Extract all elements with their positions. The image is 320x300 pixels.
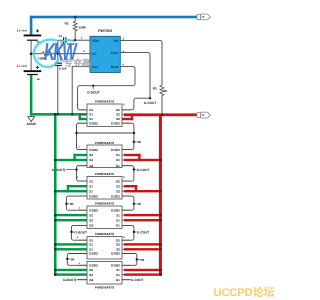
svg-text:S2: S2 (89, 158, 93, 162)
node Q1-Q2 drain right junction (133, 132, 135, 134)
ground AGND symbol (27, 116, 37, 126)
svg-text:D1\D2: D1\D2 (111, 252, 120, 256)
resistor R1 100R (38, 52, 52, 61)
svg-text:D1\D2: D1\D2 (111, 208, 120, 212)
net label 0R Q3-Q4 left (65, 202, 74, 206)
svg-text:S1: S1 (116, 268, 120, 272)
svg-text:S2: S2 (89, 218, 93, 222)
wire Q2-Q3 gate link right G-COUT (122, 166, 134, 181)
svg-text:S2: S2 (116, 184, 120, 188)
wire Q3-Q4 drain link right (122, 196, 134, 210)
node G-COUT (144, 97, 157, 105)
net label 0R Q3-Q4 right (133, 202, 142, 206)
svg-text:PW8205A8TS: PW8205A8TS (95, 141, 114, 145)
svg-text:S1: S1 (89, 243, 93, 247)
wire VDD to pin 1 (75, 37, 90, 40)
node battery midpoint (30, 52, 33, 55)
wire Q2-Q3 gate link left G-DOUT (77, 166, 88, 181)
nodes on green B- bus (54, 113, 57, 276)
svg-text:S1: S1 (116, 218, 120, 222)
svg-text:D1\D2: D1\D2 (89, 264, 98, 268)
svg-text:G-DOUT}: G-DOUT} (63, 278, 78, 282)
watermark KKW text (44, 39, 78, 66)
pin 4 label VC (83, 50, 85, 53)
wire Q1-Q2 drain link right (122, 123, 134, 149)
wire Q1-Q2 drain link left (77, 123, 88, 149)
resistor R2 100R (65, 17, 87, 40)
capacitor C2 0.1uF (58, 34, 75, 46)
svg-text:G-COUT: G-COUT (137, 168, 150, 172)
node Q1-Q2 drain left junction (75, 132, 77, 134)
wire VC tap from battery midpoint (31, 53, 90, 55)
wire AGND horizontal rail (thick green) (30, 113, 87, 116)
resistor R3 1K (153, 85, 168, 113)
svg-text:Dout: Dout (111, 65, 119, 69)
wire drain crossbar (77, 132, 134, 134)
svg-text:S2: S2 (116, 243, 120, 247)
wire Q5-Q6 drain link left (67, 254, 87, 266)
dual MOSFET Q4 PW8205A8TS (78, 202, 130, 229)
wire Dout pin to G-DOUT rail (78, 63, 135, 109)
wire green jog Q1 (79, 113, 87, 120)
wire red bars Q5 (124, 243, 159, 250)
capacitor C1 0.1uF (55, 58, 67, 70)
node 0R link Q1-Q2 (133, 140, 142, 144)
svg-text:D1\D2: D1\D2 (111, 264, 120, 268)
svg-text:G1: G1 (89, 108, 93, 112)
wire red bars Q3 (124, 185, 159, 192)
node C-ground on AGND rail (57, 113, 59, 115)
battery B1 Li-ion (top cell) (17, 29, 41, 42)
svg-text:G2: G2 (89, 278, 93, 282)
net label 0R Q5-Q6 left (66, 257, 75, 261)
nodes on red P- bus (159, 114, 163, 276)
svg-text:S1: S1 (116, 153, 120, 157)
svg-text:S2: S2 (89, 273, 93, 277)
svg-text:UCCPD论坛: UCCPD论坛 (214, 286, 275, 299)
wire red jog Q1 (122, 113, 133, 120)
svg-text:D1\D2: D1\D2 (111, 194, 120, 198)
wire P- bus vertical (thick red) (159, 113, 162, 275)
wire battery series link (30, 41, 32, 70)
wire Q6 gate left G-DOUT (77, 279, 87, 281)
dual MOSFET Q2 PW8205A8TS (78, 141, 130, 168)
svg-text:PW8205A8TS: PW8205A8TS (95, 285, 114, 289)
svg-text:G-COUT: G-COUT (144, 101, 157, 105)
svg-text:S1: S1 (89, 189, 93, 193)
net label G-COUT Q6 (131, 278, 144, 282)
wire VM pin 2 to R3 (120, 38, 162, 85)
wire Q6 gate right G-COUT (122, 279, 130, 281)
dual MOSFET Q5 PW8205A8TS (77, 232, 131, 259)
svg-text:D1\D2: D1\D2 (89, 252, 98, 256)
svg-text:VM: VM (113, 39, 118, 43)
dual MOSFET Q6 PW8205A8TS (78, 262, 130, 290)
wire green bars Q5 (54, 243, 87, 250)
svg-text:G1: G1 (89, 179, 93, 183)
IC U1 PW7053 (90, 29, 120, 72)
svg-text:100R: 100R (78, 26, 86, 30)
svg-text:PW8205A8TS: PW8205A8TS (95, 99, 114, 103)
svg-text:G-COUT: G-COUT (131, 278, 144, 282)
svg-text:D1\D2: D1\D2 (89, 148, 98, 152)
svg-text:G2: G2 (89, 224, 93, 228)
node Vss-ground on AGND rail (71, 113, 73, 115)
svg-text:G1: G1 (116, 164, 120, 168)
dual MOSFET Q1 PW8205A8TS (77, 99, 131, 126)
net label G-DOUT Q4-Q5 (70, 231, 87, 235)
wire green B- bus vertical (54, 113, 57, 276)
wire green bars Q2 (54, 154, 87, 161)
svg-text:S1: S1 (116, 273, 120, 277)
svg-text:G-DOUT}: G-DOUT} (52, 168, 67, 172)
wire B- (thick green) battery to AGND rail (30, 75, 33, 114)
svg-text:G1: G1 (116, 278, 120, 282)
wire B+ bus (thick blue) from battery to connector (30, 16, 197, 35)
wire P- bus horizontal (thick red) (124, 113, 197, 116)
svg-text:G-COUT: G-COUT (137, 231, 150, 235)
svg-text:PW8205A8TS: PW8205A8TS (95, 202, 114, 206)
svg-text:PW8205A8TS: PW8205A8TS (95, 232, 114, 236)
wire Q5-Q6 drain link right (122, 254, 137, 266)
svg-text:G1: G1 (116, 224, 120, 228)
svg-text:Li-ion: Li-ion (17, 64, 27, 68)
net label G-COUT Q2-Q3 (133, 168, 150, 172)
svg-text:G2: G2 (89, 164, 93, 168)
watermark chinese text (64, 58, 93, 70)
svg-text:Vss: Vss (92, 65, 98, 69)
watermark logo swoosh (34, 40, 73, 67)
wire Q3-Q4 drain link left (66, 196, 87, 210)
wire Q4-Q5 gate link left G-DOUT (72, 225, 88, 240)
wire green bars Q6 (54, 269, 87, 276)
svg-text:S2: S2 (89, 268, 93, 272)
node VDD junction (74, 39, 76, 41)
svg-text:S2: S2 (116, 189, 120, 193)
svg-text:S1: S1 (89, 184, 93, 188)
svg-text:R3: R3 (153, 86, 157, 90)
svg-text:AGND: AGND (27, 122, 37, 126)
wire red bars Q4 (124, 214, 159, 222)
svg-text:S2: S2 (89, 213, 93, 217)
svg-text:VC: VC (92, 52, 97, 56)
svg-text:D1\D2: D1\D2 (111, 148, 120, 152)
svg-text:D1\D2: D1\D2 (111, 121, 120, 125)
dual MOSFET Q3 PW8205A8TS (77, 172, 131, 199)
wire Q4-Q5 gate link right G-COUT (122, 225, 134, 240)
wire red bars Q6 (124, 269, 159, 276)
net label 0R Q5-Q6 right (136, 258, 145, 262)
svg-text:PW8205A8TS: PW8205A8TS (95, 172, 114, 176)
svg-text:Cout: Cout (111, 51, 119, 55)
net label G-DOUT Q6 (63, 278, 78, 282)
node VC-C1 junction (57, 53, 59, 55)
svg-text:D1\D2: D1\D2 (89, 121, 98, 125)
svg-text:R2: R2 (65, 22, 69, 26)
connector J2 P- terminal (197, 112, 210, 118)
svg-text:PW7053: PW7053 (98, 29, 112, 33)
node G-DOUT label (87, 85, 100, 95)
battery B2 Li-ion (bottom cell) (17, 64, 41, 79)
svg-text:S1: S1 (116, 158, 120, 162)
svg-text:C2: C2 (59, 34, 63, 38)
svg-text:S1: S1 (89, 113, 93, 117)
connector J1 B+ terminal (197, 14, 210, 20)
wire red bars Q2 (124, 154, 159, 161)
wire green bars Q3 (54, 185, 87, 192)
svg-text:Li-ion: Li-ion (17, 29, 27, 33)
svg-text:专充微: 专充微 (64, 58, 93, 70)
wire capacitor ground drop (57, 40, 59, 113)
net label G-COUT Q4-Q5 (133, 231, 150, 235)
svg-text:S2: S2 (116, 113, 120, 117)
svg-text:G-DOUT: G-DOUT (74, 231, 87, 235)
svg-text:VDD: VDD (92, 39, 100, 43)
junction on B+ bus at R2 tap (74, 16, 77, 19)
wire Cout pin 3 to G-COUT node (120, 50, 150, 98)
watermark UCCPD forum text (214, 286, 275, 299)
wire G-COUT to U2 gate G2 (122, 98, 150, 110)
svg-text:D1\D2: D1\D2 (89, 208, 98, 212)
net label G-DOUT Q2-Q3 (52, 168, 78, 172)
svg-text:S1: S1 (116, 213, 120, 217)
svg-text:G2: G2 (116, 108, 120, 112)
svg-text:D1\D2: D1\D2 (89, 194, 98, 198)
wire green bars Q4 (54, 214, 87, 222)
svg-text:G-DOUT: G-DOUT (87, 91, 100, 95)
svg-text:G2: G2 (116, 179, 120, 183)
svg-text:S2: S2 (89, 153, 93, 157)
wire Vss pin to AGND rail (72, 63, 90, 113)
